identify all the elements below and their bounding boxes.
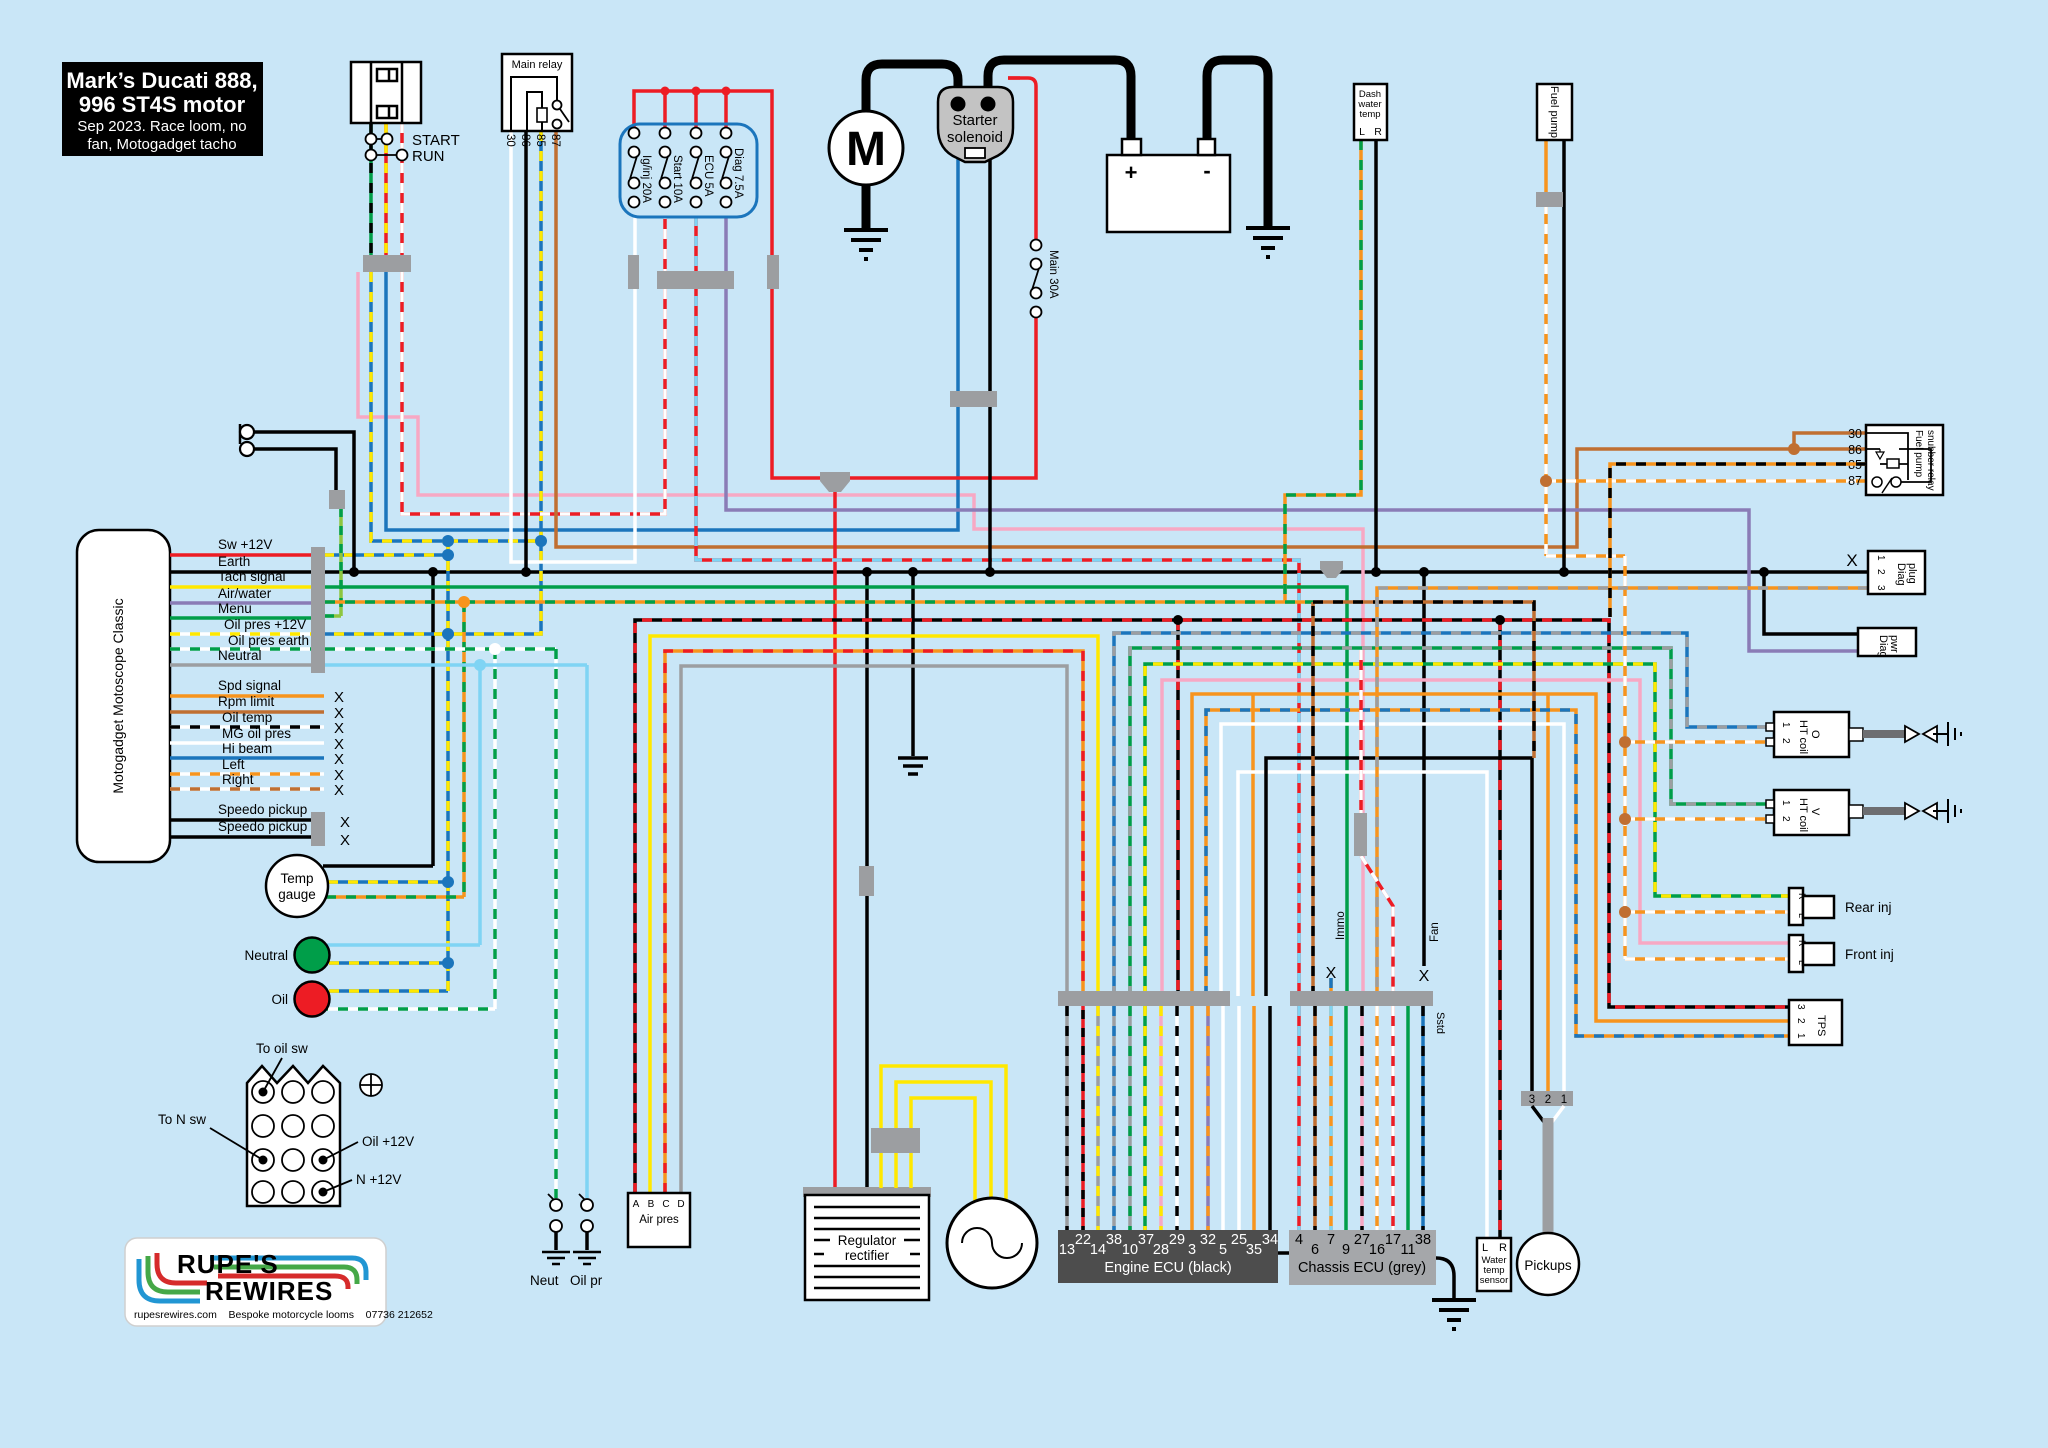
svg-text:Right: Right — [222, 772, 254, 787]
svg-text:X: X — [1846, 551, 1857, 570]
wire yellow alternator loop 3 — [911, 1098, 975, 1203]
svg-text:Oil pres +12V: Oil pres +12V — [224, 617, 306, 632]
wire Oil pres +12V (yellow/white) — [170, 617, 311, 634]
diag plug — [1846, 551, 1925, 594]
connector (motogadget bar) — [311, 547, 325, 673]
svg-text:M: M — [846, 123, 886, 176]
connector (chassis 17 wire) — [1354, 813, 1367, 856]
svg-text:5: 5 — [1219, 1242, 1227, 1258]
svg-text:85: 85 — [534, 134, 546, 147]
wire ECU link — [1278, 1251, 1289, 1255]
wire tan (main relay 87 feed to snubber) — [556, 131, 1866, 547]
svg-text:22: 22 — [1075, 1232, 1091, 1248]
svg-text:temp: temp — [1359, 109, 1380, 120]
wire orange/grey (diag plug 3 to chassis 16) — [1377, 588, 1868, 996]
svg-text:pwr: pwr — [1888, 635, 1900, 653]
connector (kill switch loom) — [363, 255, 411, 272]
temp gauge — [266, 855, 328, 917]
wire orange/green temp gauge — [326, 895, 464, 899]
svg-text:2: 2 — [1875, 569, 1886, 575]
starter motor M — [829, 111, 903, 185]
svg-text:Neutral: Neutral — [244, 948, 288, 963]
wire kill switch green/black — [369, 123, 373, 270]
wire red power (fuse bus) — [634, 78, 1036, 1192]
svg-text:4: 4 — [1295, 1232, 1303, 1248]
svg-text:To oil sw: To oil sw — [256, 1041, 308, 1056]
engine ECU pin wires — [1067, 1006, 1270, 1230]
svg-text:Earth: Earth — [218, 554, 250, 569]
svg-text:Pickups: Pickups — [1524, 1258, 1572, 1273]
svg-text:Rear inj: Rear inj — [1845, 900, 1892, 915]
HT coil O — [1766, 712, 1961, 757]
connector (red feed) — [767, 255, 779, 289]
wire thick black M to solenoid — [866, 64, 958, 120]
main relay U1 — [502, 54, 572, 147]
svg-text:2: 2 — [1780, 738, 1791, 744]
Rupe's Rewires logo — [125, 1238, 433, 1326]
switch Oil pr — [570, 1194, 603, 1288]
svg-text:Immo: Immo — [1335, 911, 1347, 940]
svg-text:Diag: Diag — [1877, 635, 1889, 658]
svg-text:32: 32 — [1200, 1232, 1216, 1248]
svg-text:C: C — [662, 1199, 669, 1210]
svg-text:REWIRES: REWIRES — [205, 1276, 333, 1306]
wire blue/yellow (+12V net) — [324, 131, 541, 991]
connector (red junction) — [820, 472, 850, 492]
rear injector — [1789, 888, 1892, 925]
wire Rpm limit (tan) — [170, 694, 344, 722]
svg-text:34: 34 — [1262, 1232, 1278, 1248]
svg-text:X: X — [1419, 968, 1430, 985]
svg-text:3: 3 — [1188, 1242, 1196, 1258]
ground (battery) — [1246, 228, 1290, 257]
svg-text:Oil temp: Oil temp — [222, 710, 272, 725]
svg-text:Sep 2023. Race loom, no: Sep 2023. Race loom, no — [77, 118, 246, 135]
svg-text:10: 10 — [1122, 1242, 1138, 1258]
HT coil V — [1766, 790, 1961, 835]
wire orange/green air-water bus — [325, 140, 1361, 897]
svg-text:1: 1 — [1795, 1033, 1806, 1039]
wire orange/red (air pres C / engine 22) — [665, 651, 1083, 1193]
svg-text:Speedo pickup: Speedo pickup — [218, 819, 307, 834]
svg-text:Menu: Menu — [218, 601, 252, 616]
fuse box — [620, 124, 757, 217]
wire green/grey (engine 10 to HT coil V) — [1130, 648, 1774, 996]
node junction dots blue/yellow — [442, 535, 547, 969]
svg-text:Temp: Temp — [280, 871, 313, 886]
svg-text:Spd signal: Spd signal — [218, 678, 281, 693]
svg-text:X: X — [340, 832, 350, 849]
svg-text:Engine ECU (black): Engine ECU (black) — [1104, 1260, 1231, 1276]
svg-text:X: X — [334, 689, 344, 706]
svg-text:START: START — [412, 132, 460, 149]
svg-text:29: 29 — [1169, 1232, 1185, 1248]
svg-text:-: - — [1203, 158, 1210, 183]
svg-text:plug: plug — [1906, 563, 1918, 584]
connector (fuse white wire) — [628, 255, 639, 289]
svg-text:1: 1 — [1780, 800, 1791, 806]
svg-text:ECU 5A: ECU 5A — [702, 155, 714, 197]
wire kill switch red/yellow — [384, 123, 388, 270]
svg-text:Fuel pump: Fuel pump — [1548, 86, 1560, 138]
svg-text:1: 1 — [1780, 722, 1791, 728]
svg-text:N +12V: N +12V — [356, 1172, 401, 1187]
svg-text:gauge: gauge — [278, 887, 316, 902]
connector (engine ecu loom bar) — [1058, 991, 1230, 1006]
svg-text:35: 35 — [1246, 1242, 1262, 1258]
svg-text:13: 13 — [1059, 1242, 1075, 1258]
wire orange/blue immo (chassis 7) — [1329, 978, 1333, 996]
chassis ECU pin wires — [1299, 1006, 1423, 1230]
svg-text:X: X — [334, 751, 344, 768]
wire thick black solenoid to battery + — [988, 60, 1131, 139]
svg-text:O: O — [1809, 730, 1821, 739]
svg-text:D: D — [677, 1199, 684, 1210]
svg-text:86: 86 — [1848, 443, 1862, 457]
wire tan/black (chassis 6) — [1313, 602, 1534, 996]
node START terminals — [366, 132, 460, 149]
svg-text:Mark’s Ducati 888,: Mark’s Ducati 888, — [66, 68, 257, 93]
wire pink (switch to chassis 27) — [358, 272, 1363, 996]
water temp sensor — [1477, 1238, 1511, 1291]
svg-text:+: + — [1125, 160, 1138, 185]
wire red/white (chassis 17) — [1361, 650, 1393, 996]
svg-text:86: 86 — [519, 134, 531, 147]
svg-text:Start 10A: Start 10A — [671, 155, 683, 203]
svg-text:TPS: TPS — [1815, 1015, 1827, 1036]
svg-text:2: 2 — [1795, 1018, 1806, 1024]
front injector — [1789, 935, 1894, 972]
wire blue/grey (engine 38 to HT coil O) — [1114, 633, 1774, 996]
connector (regulator yellows) — [871, 1128, 920, 1153]
svg-text:Fan: Fan — [1429, 922, 1441, 942]
svg-text:27: 27 — [1354, 1232, 1370, 1248]
connector (speedo) — [311, 812, 325, 846]
svg-text:87: 87 — [1848, 474, 1862, 488]
wire Spd signal (orange) — [170, 678, 344, 706]
wire Tach signal (yellow) — [170, 569, 311, 587]
starter solenoid — [938, 87, 1013, 162]
node junction dots misc — [458, 443, 1800, 918]
svg-text:HT coil: HT coil — [1797, 798, 1809, 832]
fuel pump snubber relay — [1848, 425, 1943, 495]
svg-text:Speedo pickup: Speedo pickup — [218, 802, 307, 817]
svg-text:X: X — [334, 720, 344, 737]
svg-text:30: 30 — [1848, 427, 1862, 441]
wire kill switch red/white — [400, 123, 404, 270]
wire white (engine 5 to pickups 1) — [1221, 724, 1564, 1092]
wire chassis earth tail — [1436, 1258, 1454, 1298]
svg-text:Oil pr: Oil pr — [570, 1273, 603, 1288]
svg-text:MG oil pres: MG oil pres — [222, 726, 291, 741]
svg-text:X: X — [340, 814, 350, 831]
svg-text:3: 3 — [1795, 1004, 1806, 1010]
regulator rectifier — [803, 1187, 931, 1300]
svg-text:Neut: Neut — [530, 1273, 559, 1288]
svg-text:Chassis ECU (grey): Chassis ECU (grey) — [1298, 1260, 1426, 1276]
svg-text:30: 30 — [504, 134, 516, 147]
ground (starter motor) — [844, 230, 888, 259]
connector (alternator yellows top) — [871, 1128, 920, 1153]
svg-text:Fuel pump: Fuel pump — [1913, 430, 1924, 478]
node junction dots earth bus — [349, 567, 1769, 577]
wire Neutral (grey) — [170, 648, 311, 665]
svg-text:rectifier: rectifier — [845, 1248, 890, 1263]
svg-text:Diag: Diag — [1895, 563, 1907, 586]
svg-text:996 ST4S motor: 996 ST4S motor — [79, 92, 246, 117]
wire Air/water (purple) — [170, 586, 311, 603]
wire yellow alternator loop 1 — [881, 1066, 1006, 1205]
wire orange/black (snubber 85) — [1610, 464, 1866, 617]
switch Neut — [530, 1194, 570, 1288]
svg-text:Regulator: Regulator — [838, 1233, 897, 1248]
svg-text:38: 38 — [1106, 1232, 1122, 1248]
wire Speedo pickup 1 — [170, 802, 350, 831]
svg-text:rupesrewires.com Bespoke mo: rupesrewires.com Bespoke motorcycle loom… — [134, 1309, 433, 1321]
svg-text:1: 1 — [1875, 555, 1886, 561]
wire thick black M to ground — [862, 183, 871, 228]
svg-text:9: 9 — [1342, 1242, 1350, 1258]
svg-text:37: 37 — [1138, 1232, 1154, 1248]
wire yellow alternator loop 2 — [896, 1082, 991, 1200]
svg-text:14: 14 — [1090, 1242, 1106, 1258]
TPS — [1789, 1000, 1842, 1045]
wire orange fuel pump L — [1544, 140, 1548, 195]
svg-text:L: L — [1482, 1242, 1488, 1254]
svg-text:HT coil: HT coil — [1797, 720, 1809, 754]
svg-text:Oil pres earth: Oil pres earth — [228, 633, 309, 648]
wire red/sky (ECU fuse to chassis 4) — [696, 216, 1299, 996]
connector (fuel pump) — [1536, 192, 1563, 207]
fuse Main 30A — [1031, 240, 1059, 318]
wire purple (Diag fuse to Diag pwr) — [726, 216, 1858, 651]
wire yellow (air pres B / engine 14) — [650, 636, 1098, 1193]
wire Left (orange/white) — [170, 757, 344, 784]
title block — [62, 62, 263, 156]
svg-text:Rpm limit: Rpm limit — [218, 694, 274, 709]
ground (mid earth) — [898, 758, 928, 774]
dash water temp — [1354, 84, 1387, 140]
svg-text:7: 7 — [1327, 1232, 1335, 1248]
svg-text:25: 25 — [1231, 1232, 1247, 1248]
wire grey (air pres D / engine 13) — [681, 666, 1067, 1193]
wire Speedo pickup 2 — [170, 819, 350, 849]
connector 12-pin block — [158, 1041, 414, 1206]
connector (fuse loom) — [657, 271, 734, 289]
wire green tach signal bus — [325, 587, 1347, 996]
svg-text:3: 3 — [1529, 1094, 1535, 1106]
svg-text:A: A — [633, 1199, 640, 1210]
symbol crossed circle — [360, 1074, 382, 1096]
wire 2-pin connector tails — [240, 424, 354, 616]
wire red/white (start sw to Start fuse) — [402, 216, 665, 514]
battery — [1107, 139, 1230, 232]
wire white (engine 25 to water temp L) — [1238, 772, 1487, 1238]
wire orange (engine 3 to TPS 2, pickups 2) — [1192, 694, 1789, 1092]
wire orange/blue (engine 32 to TPS 1) — [1206, 710, 1789, 1036]
wire black temp gauge — [323, 864, 433, 868]
wire thick black battery - to ground — [1207, 60, 1268, 226]
wire Oil temp (black/white) — [170, 710, 344, 737]
wire black (solenoid low side) — [988, 158, 992, 572]
svg-text:Oil: Oil — [272, 992, 289, 1007]
wire black dash water temp R — [1374, 140, 1378, 572]
svg-text:RUN: RUN — [412, 148, 445, 165]
wire Hi beam (blue) — [170, 741, 344, 768]
svg-text:Air/water: Air/water — [218, 586, 272, 601]
svg-text:V: V — [1809, 808, 1821, 816]
connector (solenoid wires) — [950, 391, 997, 407]
wire Right (tan/white) — [170, 772, 344, 799]
fuel pump — [1537, 84, 1572, 140]
svg-text:17: 17 — [1385, 1232, 1401, 1248]
ground (chassis ecu) — [1432, 1300, 1476, 1329]
wire black (engine 34 to pickups 3) — [1266, 758, 1532, 1092]
svg-text:Oil +12V: Oil +12V — [362, 1134, 414, 1149]
svg-text:solenoid: solenoid — [947, 129, 1003, 146]
svg-text:Main 30A: Main 30A — [1047, 250, 1059, 299]
svg-text:16: 16 — [1369, 1242, 1385, 1258]
diag pwr — [1858, 628, 1916, 658]
svg-text:B: B — [648, 1199, 655, 1210]
indicator Neutral LED — [244, 938, 329, 973]
svg-text:Front inj: Front inj — [1845, 947, 1894, 962]
svg-text:R: R — [1499, 1242, 1507, 1254]
wire green/yellow (engine 37 to rear inj) — [1145, 664, 1789, 996]
wire Menu (green) — [170, 601, 311, 618]
svg-text:6: 6 — [1311, 1242, 1319, 1258]
wire orange/white injector-coil feed — [1546, 204, 1866, 959]
svg-text:X: X — [1326, 965, 1337, 982]
svg-text:X: X — [334, 782, 344, 799]
label X Fan — [1419, 922, 1441, 985]
svg-text:Motogadget Motoscope Classic: Motogadget Motoscope Classic — [110, 598, 126, 793]
svg-text:Main relay: Main relay — [512, 59, 563, 71]
wire Oil pres earth (green/white) — [170, 633, 311, 649]
label X Immo — [1326, 911, 1347, 982]
wire black fuel pump R — [1562, 140, 1566, 572]
wire MG oil pres (white) — [170, 726, 344, 753]
svg-text:11: 11 — [1400, 1242, 1415, 1258]
connector (2-pin) — [329, 490, 345, 509]
svg-text:38: 38 — [1415, 1232, 1431, 1248]
pickups — [1517, 1091, 1579, 1295]
wire blue (run switch to solenoid) — [386, 158, 958, 530]
wire green/white oil pres earth — [318, 649, 556, 1198]
svg-text:Left: Left — [222, 757, 245, 772]
svg-text:To N sw: To N sw — [158, 1112, 206, 1127]
wire sky neutral net — [325, 665, 587, 1198]
indicator Oil LED — [272, 982, 330, 1017]
alternator — [947, 1198, 1037, 1288]
svg-text:fan, Motogadget tacho: fan, Motogadget tacho — [87, 136, 236, 153]
wire black/red diagnostic row — [635, 620, 1789, 1238]
svg-text:28: 28 — [1153, 1242, 1169, 1258]
wire white (main relay 30 to Ig fuse) — [511, 131, 635, 562]
svg-text:Tach signal: Tach signal — [218, 569, 286, 584]
wire pink (engine 28 to front inj) — [1162, 680, 1789, 996]
svg-text:L: L — [1359, 126, 1365, 138]
svg-text:Air pres: Air pres — [639, 1214, 679, 1226]
svg-text:Ig/inj 20A: Ig/inj 20A — [640, 155, 652, 203]
node RUN terminals — [366, 148, 445, 165]
wire Sw +12V (red) — [170, 537, 311, 555]
chassis ECU (grey) — [1289, 1230, 1436, 1285]
svg-text:Starter: Starter — [952, 112, 997, 129]
wire earth bus (black) — [170, 572, 1868, 1192]
svg-text:Neutral: Neutral — [218, 648, 262, 663]
engine ECU (black) — [1058, 1230, 1278, 1283]
svg-text:87: 87 — [549, 134, 561, 147]
wire red solenoid to main fuse — [1008, 76, 1020, 80]
connector Air pres — [628, 1193, 690, 1247]
svg-text:2: 2 — [1780, 816, 1791, 822]
svg-text:Sw +12V: Sw +12V — [218, 537, 272, 552]
connector (earth bus trapezoid) — [1320, 561, 1343, 578]
svg-text:Sstd: Sstd — [1434, 1012, 1446, 1034]
svg-text:2: 2 — [1545, 1094, 1551, 1106]
svg-text:Hi beam: Hi beam — [222, 741, 272, 756]
kill switch — [351, 62, 421, 123]
wire black (main relay 86 to earth) — [524, 131, 528, 572]
svg-text:sensor: sensor — [1480, 1275, 1509, 1286]
svg-text:1: 1 — [1561, 1094, 1567, 1106]
connector (chassis ecu loom bar) — [1290, 991, 1433, 1006]
connector (earth to regulator) — [859, 866, 874, 896]
Motogadget Motoscope Classic — [77, 530, 170, 862]
svg-text:R: R — [1374, 126, 1382, 138]
svg-text:Diag 7.5A: Diag 7.5A — [732, 148, 744, 199]
svg-text:3: 3 — [1875, 585, 1886, 591]
svg-text:RUPE'S: RUPE'S — [177, 1249, 279, 1279]
